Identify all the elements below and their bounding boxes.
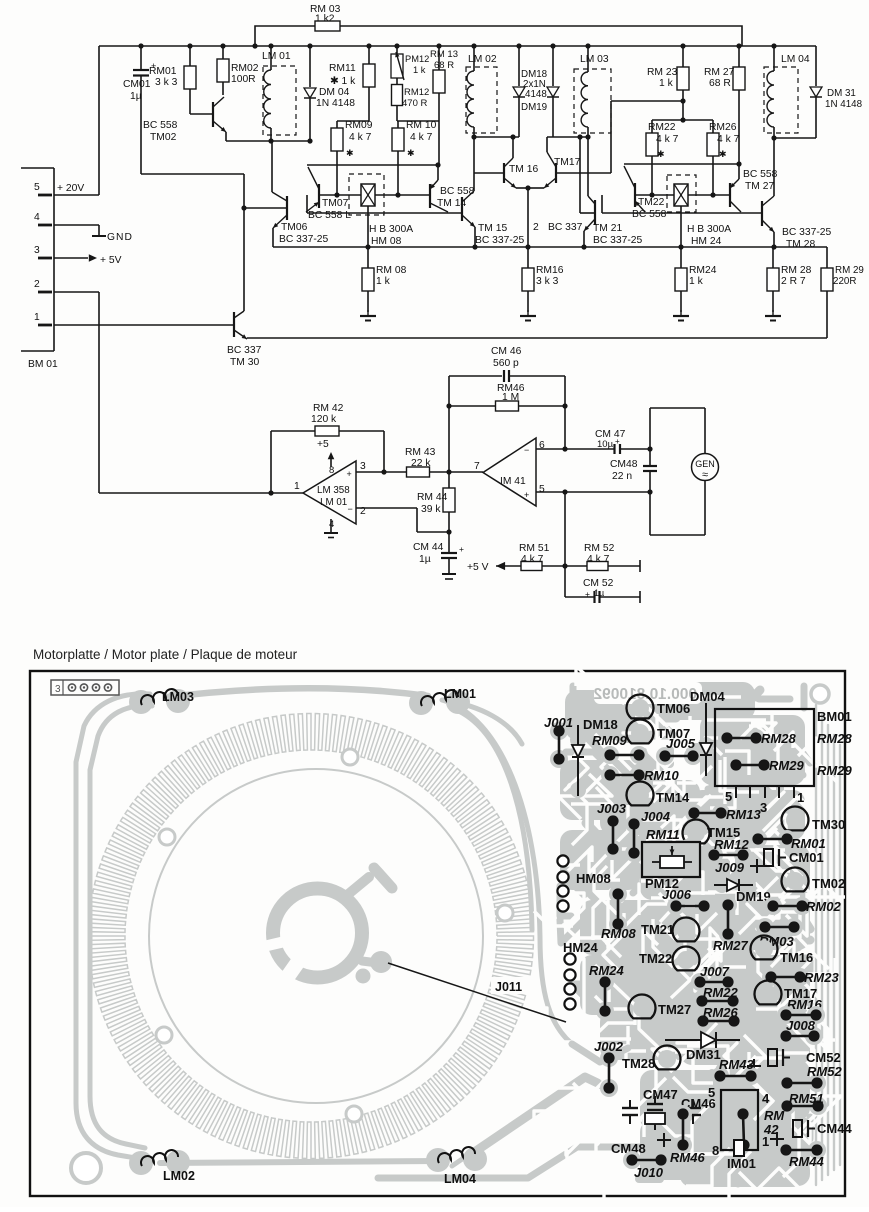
jumper J004	[625, 815, 643, 833]
resistor RM03	[255, 26, 315, 46]
svg-text:RM24: RM24	[689, 265, 717, 276]
svg-text:RM29: RM29	[817, 763, 852, 778]
svg-text:RM12: RM12	[714, 837, 749, 852]
svg-text:DM04: DM04	[690, 689, 725, 704]
wire collector link left	[306, 195, 308, 213]
diode DM31 1N4148	[815, 46, 817, 86]
svg-text:+: +	[585, 589, 590, 599]
svg-text:BC 337-25: BC 337-25	[475, 235, 525, 246]
inductor LM02	[466, 67, 497, 133]
svg-text:1: 1	[34, 312, 40, 323]
svg-text:220R: 220R	[833, 276, 856, 287]
svg-text:4: 4	[34, 212, 40, 223]
svg-text:CM 46: CM 46	[491, 346, 522, 357]
svg-text:RM11: RM11	[646, 827, 680, 842]
svg-text:RM23: RM23	[804, 970, 839, 985]
svg-text:−: −	[348, 504, 353, 514]
diode DM18 pcb	[570, 732, 586, 748]
svg-text:BC 558 L: BC 558 L	[308, 210, 351, 221]
resistor RM52 pcb	[778, 1074, 796, 1092]
svg-text:RM 28: RM 28	[781, 265, 812, 276]
svg-text:TM28: TM28	[622, 1056, 655, 1071]
transistor TM27 pcb	[633, 999, 651, 1017]
svg-text:120 k: 120 k	[311, 414, 337, 425]
svg-text:Motorplatte / Motor plate / Pl: Motorplatte / Motor plate / Plaque de mo…	[33, 647, 298, 662]
diode DM04 pcb	[698, 737, 714, 753]
PCB border	[30, 671, 845, 1196]
resistor RM43 22k	[407, 467, 430, 477]
pcb hub	[273, 889, 362, 978]
resistor RM27 68R	[738, 46, 740, 67]
transistor TM21 pcb	[677, 922, 695, 940]
svg-text:+: +	[347, 469, 352, 479]
wire pin2 net	[356, 507, 417, 509]
svg-text:✱: ✱	[719, 149, 727, 159]
svg-text:3: 3	[34, 245, 40, 256]
jumper J001	[550, 722, 568, 740]
svg-text:J009: J009	[715, 860, 745, 875]
svg-text:J006: J006	[662, 887, 692, 902]
svg-text:J004: J004	[641, 809, 671, 824]
svg-text:560 p: 560 p	[493, 358, 519, 369]
svg-text:BC 337-25: BC 337-25	[593, 235, 643, 246]
ground RM24	[680, 310, 682, 316]
svg-text:−: −	[524, 445, 529, 455]
resistor RM02 pcb	[764, 897, 782, 915]
transistor TM15 pcb	[687, 824, 705, 842]
svg-text:3 k 3: 3 k 3	[536, 276, 559, 287]
svg-text:RM: RM	[764, 1108, 785, 1123]
svg-text:DM19: DM19	[521, 102, 547, 113]
svg-text:22 k: 22 k	[411, 458, 431, 469]
resistor RM51 pcb	[778, 1097, 796, 1115]
pcb mirrored text	[594, 682, 702, 704]
ground op-amp pin4	[330, 519, 332, 533]
transistor TM07 pcb	[631, 724, 649, 742]
svg-text:RM11: RM11	[329, 63, 356, 74]
holes HM08	[557, 855, 568, 866]
svg-text:LM01: LM01	[444, 687, 476, 701]
wire RM09 top	[336, 121, 338, 128]
svg-text:+ 5V: + 5V	[100, 255, 122, 266]
pcb maze white channels	[562, 924, 621, 957]
transistor TM22 BC558	[634, 183, 636, 207]
inductor LM03	[574, 69, 611, 133]
svg-text:3 k 3: 3 k 3	[155, 77, 178, 88]
svg-text:1µ: 1µ	[419, 554, 431, 565]
svg-text:+ 20V: + 20V	[57, 183, 84, 194]
svg-text:+: +	[615, 437, 620, 446]
svg-text:RM 23: RM 23	[647, 67, 678, 78]
pointer line J011	[491, 977, 535, 994]
svg-text:1 k: 1 k	[689, 276, 704, 287]
resistor RM08 pcb	[609, 885, 627, 903]
transistor TM17	[555, 163, 557, 183]
capacitor CM44 pcb	[793, 1120, 802, 1137]
svg-text:RM12: RM12	[404, 87, 429, 98]
inductor LM03 pcb	[129, 690, 153, 714]
svg-text:HM 08: HM 08	[371, 236, 402, 247]
wire LM01 bottom node	[226, 140, 310, 142]
capacitor CM01 pcb	[764, 849, 773, 866]
inductor LM04	[764, 67, 798, 133]
resistor RM28 2R7	[767, 268, 779, 291]
resistor RM10 pcb	[601, 766, 619, 784]
svg-text:J002: J002	[594, 1039, 624, 1054]
svg-text:BC 558: BC 558	[143, 120, 178, 131]
svg-text:2 R 7: 2 R 7	[781, 276, 806, 287]
pcb trace LM04 to J002	[470, 1077, 608, 1155]
wire CM01 to TM30 collector	[141, 173, 244, 175]
svg-text:TM 21: TM 21	[593, 223, 622, 234]
pcb bottom trace LM02-LM04	[160, 1161, 440, 1163]
wire bias divider vertical	[564, 492, 566, 597]
capacitor CM46 560p feedback	[448, 376, 450, 472]
resistor RM11	[368, 46, 370, 64]
wire TM17 base cross-coupling	[610, 101, 612, 173]
pcb left border traces	[76, 694, 150, 1160]
wire pin2 to op-amp	[54, 291, 99, 293]
svg-text:CM48: CM48	[610, 459, 638, 470]
svg-text:RM02: RM02	[231, 63, 259, 74]
resistor RM11 pcb	[651, 839, 669, 857]
svg-text:5: 5	[725, 789, 732, 804]
ground RM28	[772, 310, 774, 316]
svg-text:+5 V: +5 V	[467, 562, 489, 573]
svg-text:DM 04: DM 04	[319, 87, 350, 98]
svg-text:RM08: RM08	[601, 926, 636, 941]
potentiometer PM12 pcb	[642, 842, 700, 877]
wire PM12 branch	[397, 120, 439, 122]
svg-text:TM22: TM22	[638, 197, 665, 208]
svg-text:BM 01: BM 01	[28, 359, 58, 370]
transistor TM07 BC558	[318, 184, 320, 208]
resistor RM23 pcb	[762, 968, 780, 986]
svg-text:22 n: 22 n	[612, 471, 632, 482]
wire GEN loop top	[649, 408, 651, 449]
resistor RM24 pcb	[596, 973, 614, 991]
svg-text:LM 03: LM 03	[580, 54, 609, 65]
svg-text:7: 7	[474, 461, 480, 472]
svg-text:4: 4	[762, 1091, 770, 1106]
crystal HB300A HM24	[667, 175, 696, 212]
svg-text:RM26: RM26	[709, 122, 737, 133]
svg-text:TM22: TM22	[639, 951, 672, 966]
pcb ring tacho meander winding	[88, 713, 533, 1158]
wire main +20V rail	[99, 45, 816, 47]
svg-text:GEN: GEN	[695, 459, 715, 469]
svg-text:HM08: HM08	[576, 871, 611, 886]
resistor RM24 1k	[675, 268, 687, 291]
svg-text:CM44: CM44	[817, 1121, 852, 1136]
svg-text:J010: J010	[634, 1165, 664, 1180]
holes HM24	[564, 953, 575, 964]
svg-text:4 k 7: 4 k 7	[656, 134, 679, 145]
transistor TM14 pcb	[631, 786, 649, 804]
svg-text:RM13: RM13	[726, 807, 761, 822]
pcb bottom staircase trace	[378, 1112, 690, 1178]
pcb maze field	[637, 750, 670, 764]
svg-text:TM06: TM06	[281, 222, 308, 233]
resistor RM27 pcb	[719, 896, 737, 914]
svg-text:J007: J007	[700, 964, 730, 979]
transistor TM17 pcb	[759, 985, 777, 1003]
svg-text:RM26: RM26	[703, 1005, 738, 1020]
svg-text:4 k 7: 4 k 7	[349, 132, 372, 143]
svg-text:J001: J001	[544, 715, 573, 730]
plus mark RM46	[657, 1139, 671, 1141]
svg-text:TM07: TM07	[322, 198, 349, 209]
svg-text:RM 42: RM 42	[313, 403, 344, 414]
inductor LM01 pcb	[409, 691, 433, 715]
svg-text:RM02: RM02	[806, 899, 841, 914]
svg-text:TM 28: TM 28	[786, 239, 815, 250]
resistor RM51 4k7	[521, 562, 542, 571]
svg-text:100R: 100R	[231, 74, 256, 85]
svg-text:1 k: 1 k	[376, 276, 391, 287]
svg-text:1µ: 1µ	[594, 588, 604, 598]
svg-text:1N 4148: 1N 4148	[316, 98, 355, 109]
resistor RM02	[222, 46, 224, 59]
ground CM44	[442, 573, 456, 575]
svg-text:RM 29: RM 29	[835, 265, 864, 276]
pcb big hole bottom-left corner	[71, 1153, 101, 1183]
ground GND	[98, 225, 100, 236]
op-amp U1 LM358 IM01	[303, 461, 356, 524]
jumper J010 pcb	[623, 1151, 641, 1169]
svg-text:470 R: 470 R	[402, 98, 427, 109]
svg-text:RM28: RM28	[817, 731, 852, 746]
svg-text:✱: ✱	[407, 148, 415, 158]
svg-text:1 k: 1 k	[659, 78, 674, 89]
jumper J005	[656, 747, 674, 765]
transistor TM15 BC337-25	[461, 197, 463, 221]
jumper J006	[667, 897, 685, 915]
svg-text:RM 51: RM 51	[519, 543, 550, 554]
wire TM16 emitters to RM16	[527, 188, 529, 268]
resistor RM12 470R	[396, 78, 398, 84]
svg-text:H B 300A: H B 300A	[687, 224, 731, 235]
capacitor CM44 1u	[448, 532, 450, 553]
pcb top arc trace	[168, 688, 428, 697]
svg-text:2: 2	[533, 222, 539, 233]
svg-text:RM 10: RM 10	[406, 120, 437, 131]
resistor RM26 4k7	[707, 133, 719, 156]
resistor RM16 3k3	[522, 268, 534, 291]
inductor LM02 pcb	[129, 1151, 153, 1175]
svg-text:TM21: TM21	[641, 922, 674, 937]
svg-text:RM 52: RM 52	[584, 543, 615, 554]
svg-text:RM51: RM51	[789, 1091, 824, 1106]
transistor TM30 pcb	[786, 811, 804, 829]
svg-text:LM02: LM02	[163, 1169, 195, 1183]
svg-text:BC 337: BC 337	[227, 345, 262, 356]
pcb hole top-right	[811, 685, 829, 703]
resistor RM12 pcb	[705, 846, 723, 864]
svg-text:68 R: 68 R	[434, 60, 454, 71]
svg-text:5: 5	[708, 1085, 715, 1100]
svg-text:TM16: TM16	[780, 950, 813, 965]
inductor LM01	[263, 66, 296, 135]
svg-text:BC 337: BC 337	[548, 222, 583, 233]
resistor RM22 4k7	[646, 133, 658, 156]
transistor TM14 BC558	[429, 184, 431, 208]
capacitor CM48 22n	[649, 449, 651, 466]
svg-text:3: 3	[760, 800, 767, 815]
svg-text:PM12: PM12	[405, 54, 429, 64]
svg-text:CM01: CM01	[789, 850, 824, 865]
svg-text:TM14: TM14	[656, 790, 690, 805]
diode DM19	[552, 46, 554, 86]
transistor TM30 BC337	[233, 312, 235, 337]
svg-text:BM01: BM01	[817, 709, 852, 724]
svg-text:BC 337-25: BC 337-25	[279, 234, 329, 245]
svg-text:✱: ✱	[657, 149, 665, 159]
svg-text:LM 358: LM 358	[317, 485, 350, 496]
svg-text:CM47: CM47	[643, 1087, 678, 1102]
op-amp IM01 pcb	[721, 1090, 758, 1150]
svg-text:RM43: RM43	[719, 1057, 754, 1072]
transistor TM22 pcb	[677, 951, 695, 969]
connector BM01	[53, 168, 55, 351]
resistor RM42 120k feedback	[270, 431, 272, 493]
diode DM18	[518, 46, 520, 86]
svg-text:RM22: RM22	[648, 122, 676, 133]
wire pin6 net	[536, 448, 614, 450]
transistor TM28 BC337-25	[761, 201, 763, 226]
svg-text:RM44: RM44	[789, 1154, 824, 1169]
svg-text:39 k: 39 k	[421, 504, 441, 515]
svg-text:BC 558: BC 558	[743, 169, 778, 180]
pcb maze patches	[565, 690, 635, 740]
transistor TM28 pcb	[658, 1050, 676, 1068]
crystal HB300A HM08	[349, 174, 384, 215]
potentiometer PM12	[396, 46, 398, 54]
jumper J007	[691, 973, 709, 991]
svg-text:4 k 7: 4 k 7	[717, 134, 740, 145]
svg-text:BC 337-25: BC 337-25	[782, 227, 832, 238]
svg-text:HM 24: HM 24	[691, 236, 722, 247]
svg-text:LM04: LM04	[444, 1172, 476, 1186]
svg-text:RM 43: RM 43	[405, 447, 436, 458]
capacitor CM52 1u	[565, 596, 594, 598]
resistor RM10 4k7	[392, 128, 404, 151]
diode DM31 pcb	[665, 1039, 740, 1041]
svg-text:RM29: RM29	[769, 758, 804, 773]
op-amp U2 IM41	[483, 438, 536, 506]
resistor RM08 1k	[362, 268, 374, 291]
svg-text:5: 5	[34, 182, 40, 193]
wire emitter line right block	[624, 163, 739, 165]
transistor TM16	[503, 163, 505, 183]
svg-text:RM46: RM46	[670, 1150, 705, 1165]
svg-text:LM 01: LM 01	[262, 51, 291, 62]
resistor RM01	[189, 46, 191, 66]
svg-text:RM 27: RM 27	[704, 67, 735, 78]
svg-text:+: +	[459, 544, 464, 554]
transistor TM02 pcb	[786, 872, 804, 890]
svg-text:1µ: 1µ	[130, 91, 142, 102]
diode DM19 pcb	[714, 877, 730, 893]
svg-text:4 k 7: 4 k 7	[587, 554, 610, 565]
svg-text:RM27: RM27	[713, 938, 748, 953]
svg-text:4 k 7: 4 k 7	[410, 132, 433, 143]
svg-text:1N 4148: 1N 4148	[825, 99, 863, 110]
svg-text:DM31: DM31	[686, 1047, 721, 1062]
jumper J003	[604, 812, 622, 830]
resistor RM13 68R	[438, 46, 440, 70]
svg-text:RM52: RM52	[807, 1064, 842, 1079]
wire pin1 to TM30 base	[54, 324, 234, 326]
svg-text:BC 558: BC 558	[632, 209, 667, 220]
resistor RM43 pcb	[711, 1067, 729, 1085]
svg-text:H B 300A: H B 300A	[369, 224, 413, 235]
svg-text:CM 44: CM 44	[413, 542, 444, 553]
transistor TM21 BC337-25	[594, 200, 596, 225]
svg-text:J008: J008	[786, 1018, 816, 1033]
svg-text:68 R: 68 R	[709, 78, 731, 89]
svg-text:TM30: TM30	[812, 817, 845, 832]
svg-text:TM 16: TM 16	[509, 164, 538, 175]
transistor TM16 pcb	[755, 940, 773, 958]
resistor RM09 pcb	[601, 746, 619, 764]
svg-text:TM 30: TM 30	[230, 357, 259, 368]
jumper J002	[600, 1049, 618, 1067]
resistor RM13 pcb	[685, 804, 703, 822]
transistor TM06 pcb	[631, 699, 649, 717]
diode DM04 1N4148	[309, 46, 311, 87]
resistor RM52 4k7	[565, 565, 587, 567]
pcb hole bottom-left	[156, 1027, 172, 1043]
svg-text:10µ: 10µ	[597, 439, 614, 450]
svg-text:TM27: TM27	[658, 1002, 691, 1017]
jumper J008	[777, 1027, 795, 1045]
resistor RM44 pcb	[777, 1141, 795, 1159]
svg-text:IM 41: IM 41	[500, 476, 526, 487]
wire pin3 net	[356, 471, 407, 473]
resistor RM03 pcb	[756, 918, 774, 936]
svg-text:8: 8	[712, 1143, 719, 1158]
svg-text:CM01: CM01	[123, 79, 151, 90]
svg-text:GND: GND	[107, 232, 133, 243]
wire collector link right	[601, 195, 603, 213]
svg-text:✱: ✱	[346, 148, 354, 158]
svg-text:RM24: RM24	[589, 963, 624, 978]
connector BM01 pcb	[715, 709, 814, 786]
resistor RM29 pcb	[727, 756, 745, 774]
wire GEN loop bottom	[704, 481, 706, 536]
svg-text:TM02: TM02	[812, 876, 845, 891]
ground RM08	[367, 310, 369, 316]
svg-text:RM 08: RM 08	[376, 265, 407, 276]
svg-text:I M 01: I M 01	[320, 497, 347, 508]
wire DM19-LM03 node	[547, 136, 588, 138]
svg-text:4148: 4148	[525, 89, 547, 100]
resistor RM46 pcb	[674, 1105, 692, 1123]
wire pin4 GND	[54, 224, 99, 226]
pcb chevron traces bottom left of maze	[572, 1044, 628, 1062]
capacitor CM52 pcb	[768, 1049, 777, 1066]
wire emitter line left block	[307, 164, 438, 166]
svg-text:TM 15: TM 15	[478, 223, 507, 234]
svg-text:1: 1	[294, 481, 300, 492]
svg-text:4 k 7: 4 k 7	[521, 554, 544, 565]
svg-text:RM01: RM01	[791, 836, 826, 851]
svg-text:LM 02: LM 02	[468, 54, 497, 65]
svg-text:+: +	[524, 490, 529, 500]
wire pin5 +20V	[54, 194, 99, 196]
capacitor CM01	[140, 46, 142, 70]
